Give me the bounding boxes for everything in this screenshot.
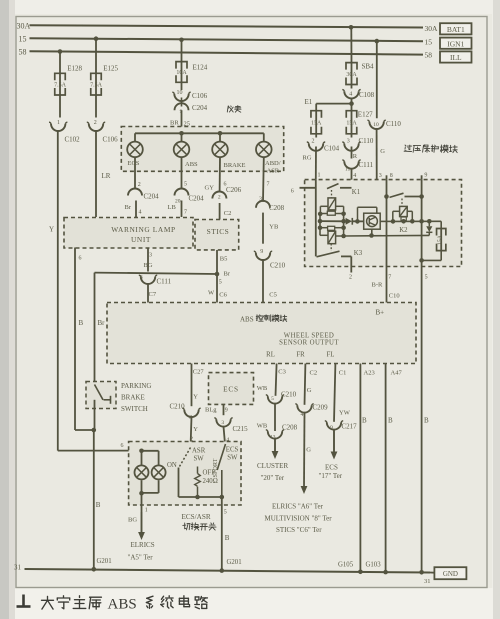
wire K1 coil leads [320, 205, 328, 207]
instrument cluster dashed box [121, 127, 283, 172]
caption title Daewoo Chairman ABS system circuit [42, 596, 54, 609]
wire ABS pin A47 to ground [385, 364, 387, 573]
switch ASR SW blade dashed [180, 448, 191, 467]
module pin9/pin5 vertical wire [421, 180, 423, 573]
connector C208 pin 3 [256, 201, 270, 208]
svg-text:WHEEL SPEED: WHEEL SPEED [284, 333, 334, 340]
svg-text:B: B [79, 319, 84, 327]
wire RG to module pin 1 [315, 147, 317, 180]
wire ECS box pin 9 down [223, 404, 225, 415]
wire into ABS module C7 [147, 284, 149, 303]
svg-text:C204: C204 [144, 193, 160, 201]
wire LR to warning lamp unit [95, 131, 97, 217]
svg-text:K1: K1 [352, 189, 360, 196]
svg-text:C2: C2 [310, 369, 318, 376]
wire transistor emitter down [371, 229, 373, 235]
STICS dashed box [195, 220, 239, 250]
svg-text:C102: C102 [65, 136, 81, 144]
svg-text:R: R [353, 153, 358, 160]
BAT1 box [440, 23, 472, 34]
svg-text:15A: 15A [346, 120, 357, 126]
svg-text:MULTIVISION "8" Ter: MULTIVISION "8" Ter [265, 514, 333, 522]
node dot feed at x=220 [218, 131, 223, 136]
connector C111 pin 11 [344, 162, 358, 169]
wire fuse E125 to connector C106 [95, 95, 97, 118]
node dot K2 switch left [384, 194, 389, 199]
svg-text:ABD/: ABD/ [265, 160, 281, 167]
svg-text:ABS: ABS [108, 597, 137, 613]
transistor Q1 box [364, 213, 381, 229]
node dot lamp feed [139, 449, 144, 454]
ground G103 [383, 570, 388, 575]
wire WB to connector C208 [274, 404, 276, 431]
wire R to connector C111 [351, 147, 353, 159]
wire Y to ASR switch [191, 417, 192, 448]
svg-text:C1: C1 [339, 369, 347, 376]
wire fuse E124 to connector C106/C204 [181, 82, 183, 90]
svg-text:G103: G103 [366, 561, 382, 568]
wire ladder rails [319, 214, 321, 236]
svg-text:C106: C106 [192, 92, 208, 100]
connector C210 pin 5 [268, 396, 282, 403]
wire lamps to ELRICS A5 arrow [141, 493, 143, 512]
svg-text:C210: C210 [270, 262, 286, 270]
wire lamp ECS to connector C204 [134, 157, 136, 189]
svg-text:E128: E128 [67, 65, 82, 73]
svg-text:SW: SW [194, 455, 205, 462]
svg-text:E1: E1 [305, 98, 313, 106]
svg-text:C111: C111 [359, 161, 374, 169]
wire ABS pin C3 down [276, 364, 277, 396]
svg-text:C7: C7 [149, 291, 157, 298]
svg-text:B5: B5 [220, 255, 228, 262]
wire to module pin 4 [351, 169, 353, 188]
svg-text:A47: A47 [391, 369, 403, 376]
wire diode to transistor base [352, 220, 363, 222]
svg-text:Br: Br [224, 270, 231, 277]
ILL box [440, 51, 472, 62]
svg-text:58: 58 [19, 47, 27, 56]
node dot feed at x=181.5 [179, 131, 184, 136]
svg-text:5: 5 [219, 279, 222, 285]
svg-text:"A5" Ter: "A5" Ter [128, 554, 154, 562]
svg-text:7: 7 [267, 181, 270, 187]
node junction on bus 15 at x=96 [94, 36, 99, 41]
wire ON contact down [178, 468, 180, 498]
wire lamp BRAKE to connector C206 pin 6 [219, 157, 221, 192]
svg-text:4: 4 [349, 91, 352, 97]
node junction on bus 15 at x=181 [179, 38, 184, 43]
svg-text:C215: C215 [233, 425, 249, 433]
wire ABS pin A23 to ground [359, 364, 361, 572]
warning lamp unit dashed box [64, 218, 193, 249]
svg-text:6: 6 [79, 256, 82, 262]
bus 30A (BAT1) wire [30, 25, 424, 27]
svg-text:ABS: ABS [240, 315, 254, 323]
ground G105 [358, 570, 363, 575]
svg-text:30A: 30A [425, 24, 439, 33]
svg-text:4: 4 [353, 173, 356, 179]
svg-text:6: 6 [291, 189, 294, 195]
svg-text:5: 5 [271, 396, 274, 402]
svg-text:C208: C208 [282, 424, 298, 432]
svg-text:30A: 30A [17, 22, 31, 31]
svg-text:E124: E124 [193, 63, 208, 71]
wire bus58 to fuse E128 [59, 52, 61, 74]
wire C108 to node [351, 98, 353, 103]
wire bus15 to fuse E124 [181, 40, 183, 62]
svg-text:PARKING: PARKING [121, 382, 151, 390]
connector C209 pin 4 [297, 405, 311, 412]
svg-text:FL: FL [327, 351, 335, 358]
fuse E128 7.5A [55, 73, 66, 80]
wire transistor collector right [380, 220, 393, 222]
svg-text:7.5A: 7.5A [90, 82, 103, 88]
node junction on bus 15 at x=377 [375, 39, 380, 44]
svg-text:RG: RG [303, 154, 312, 161]
svg-text:8: 8 [390, 173, 393, 179]
wire pin6 horizontal to junction [75, 429, 94, 431]
svg-text:IGN1: IGN1 [447, 39, 464, 48]
wire fuse E128 to connector C102 [59, 95, 61, 118]
svg-text:C3: C3 [278, 368, 286, 375]
svg-text:15: 15 [19, 35, 27, 44]
svg-text:C206: C206 [226, 186, 242, 194]
svg-text:G: G [380, 148, 385, 155]
wire BR 25 into instrument cluster [181, 110, 183, 126]
svg-text:WB: WB [257, 422, 268, 429]
wire LB to warning lamp unit pin 7 [181, 201, 183, 218]
relay K3 switch [317, 251, 340, 257]
relay K1 switch [315, 180, 317, 257]
arrow to cluster terminal [274, 439, 276, 452]
svg-text:BR: BR [170, 120, 179, 127]
wire lamp bottoms join [141, 480, 143, 493]
svg-text:ABS: ABS [185, 161, 198, 168]
diode D1 [346, 218, 352, 225]
svg-text:SW: SW [227, 454, 238, 461]
svg-text:9: 9 [260, 249, 263, 255]
node junction on bus 58 at x=60 [58, 49, 63, 54]
svg-text:WARNING LAMP: WARNING LAMP [111, 225, 175, 234]
wire lamp ABD/ASR to connector C208 [262, 157, 265, 202]
node dot resistor bottom [195, 495, 200, 500]
wire lamp ABS to connector C204 pin 5 [181, 157, 183, 189]
svg-text:ASR: ASR [192, 447, 206, 454]
wire E127 to connector C110 [351, 134, 353, 138]
svg-text:C111: C111 [157, 278, 172, 286]
wire Br to warning lamp unit pin 4 [135, 201, 137, 218]
svg-text:31: 31 [14, 564, 22, 572]
transistor Q1 [367, 216, 378, 227]
node dots K2 rail [401, 219, 406, 224]
wire pin5 to ground G201 [221, 497, 223, 571]
svg-text:5: 5 [425, 275, 428, 281]
svg-text:GND: GND [443, 570, 458, 578]
wire W into ABS module C6 [216, 274, 218, 303]
svg-text:10A: 10A [176, 70, 187, 76]
relay K1 linkage dashed [331, 190, 333, 198]
svg-text:ELRICS "A6" Ter: ELRICS "A6" Ter [272, 502, 324, 510]
svg-text:G: G [306, 446, 311, 453]
svg-text:B-R: B-R [372, 281, 384, 288]
svg-text:3: 3 [149, 253, 152, 259]
svg-text:15A: 15A [311, 120, 322, 126]
wire G to module pin 3 [376, 129, 378, 207]
svg-text:C110: C110 [359, 137, 374, 145]
overvoltage protection module dashed box [305, 180, 462, 267]
ground node module pin5 [419, 570, 424, 575]
instrument cluster label (Chinese: instrument) [227, 106, 233, 112]
fuse SB4 30A [346, 63, 357, 70]
svg-text:C2: C2 [224, 210, 232, 217]
indicator lamp L1 [135, 465, 149, 479]
fuse F1 15A in module [440, 221, 442, 228]
node dot lamps out [139, 491, 144, 496]
svg-text:ILL: ILL [450, 53, 462, 62]
svg-text:ECS/ASR: ECS/ASR [182, 513, 211, 521]
svg-text:B+: B+ [376, 308, 385, 316]
wire Br horizontal to left [95, 273, 218, 274]
module pin 8 stub [386, 175, 388, 179]
svg-text:BLg: BLg [205, 407, 217, 414]
wire K2 coil leads [393, 210, 400, 212]
svg-text:W: W [208, 289, 215, 296]
overvoltage protection module label (Chinese) [404, 145, 412, 152]
svg-text:C104: C104 [324, 144, 340, 152]
module pin 9 stub [421, 175, 423, 179]
svg-text:STICS "C6" Ter: STICS "C6" Ter [276, 526, 322, 534]
parking brake switch blade [95, 385, 104, 400]
wire K2 rail [393, 220, 441, 222]
svg-text:C204: C204 [192, 104, 208, 112]
module pin8/pin7 vertical wire [386, 180, 388, 303]
svg-text:BRAKE: BRAKE [121, 394, 145, 402]
node junction parking/warning wires [92, 428, 97, 433]
node dot switch out [220, 495, 225, 500]
connector C204 (ECS lamp) [128, 189, 142, 196]
svg-text:BAT1: BAT1 [447, 25, 465, 34]
svg-text:E125: E125 [103, 65, 118, 73]
svg-text:E127: E127 [358, 111, 373, 119]
node dots K1 rail [318, 212, 323, 217]
node dots rails mid [318, 219, 323, 224]
svg-text:4: 4 [301, 412, 304, 418]
wire bus15 down to connector C110 pin 10 [376, 41, 378, 118]
svg-text:G105: G105 [338, 561, 354, 568]
svg-text:ECS: ECS [226, 446, 239, 453]
svg-text:15: 15 [425, 37, 433, 46]
wire K3 coil leads [320, 234, 328, 236]
switch ECS SW blade [217, 444, 225, 470]
wire G down to ELRICS arrow [303, 413, 306, 487]
wire ABS pin C27 down [191, 364, 193, 407]
svg-text:2: 2 [218, 194, 221, 200]
svg-text:2: 2 [138, 182, 141, 188]
relay K2 coil [400, 206, 408, 216]
connector C110 pin 10 [369, 122, 383, 129]
wire down to fuse E1 [315, 104, 317, 111]
relay K3 coil [328, 231, 336, 244]
wire cluster feed horizontal [135, 132, 264, 134]
svg-text:C108: C108 [359, 91, 375, 99]
wire SB4 to connector C108 [351, 85, 353, 89]
svg-text:9: 9 [424, 172, 427, 178]
relay K2 switch [390, 193, 404, 197]
wire fuse F1 bottom to pin5 wire [440, 251, 442, 261]
wire switch to junction [94, 400, 96, 430]
svg-text:240Ω: 240Ω [203, 478, 218, 485]
svg-text:C6: C6 [219, 292, 227, 299]
svg-text:10: 10 [373, 122, 379, 128]
svg-text:C5: C5 [269, 292, 277, 299]
svg-text:C210: C210 [281, 390, 297, 398]
svg-text:CLUSTER: CLUSTER [257, 462, 288, 470]
svg-text:11: 11 [345, 166, 351, 172]
svg-text:ASR: ASR [267, 167, 280, 174]
relay K3 upper small box [328, 226, 335, 230]
wire ECS SW contact down [221, 470, 223, 497]
svg-text:SENSOR OUTPUT: SENSOR OUTPUT [279, 340, 339, 347]
svg-text:B: B [388, 416, 393, 424]
connector C108 pin 4 [344, 91, 358, 98]
connector C217 pin 9 [327, 422, 341, 429]
svg-text:C210: C210 [170, 403, 186, 411]
module pin 6 stub [300, 187, 316, 189]
svg-text:BRAKE: BRAKE [224, 162, 246, 169]
svg-text:31: 31 [424, 578, 431, 585]
svg-text:1: 1 [57, 120, 60, 126]
bus 15 (IGN1) wire [30, 38, 424, 41]
svg-text:9: 9 [330, 425, 333, 431]
svg-text:C10: C10 [389, 292, 400, 299]
wire feed to lamp ABS [181, 133, 183, 142]
svg-text:10: 10 [177, 90, 183, 96]
svg-text:YB: YB [269, 224, 279, 231]
fuse E125 7.5A [91, 73, 102, 80]
wire transistor top branch [357, 207, 359, 221]
svg-text:58: 58 [425, 51, 433, 60]
wire lamp feeds [142, 450, 159, 452]
wire K3 to module pin 2 [350, 256, 352, 266]
svg-text:7: 7 [184, 209, 187, 215]
GND box [430, 572, 434, 574]
svg-text:SB4: SB4 [362, 62, 375, 70]
wire Y - C102 down left side [57, 131, 59, 451]
wire Br down to parking brake switch [94, 273, 96, 382]
svg-text:7: 7 [388, 275, 391, 281]
svg-text:1: 1 [318, 173, 321, 179]
svg-text:9: 9 [225, 408, 228, 414]
svg-text:3: 3 [379, 173, 382, 179]
svg-text:Y: Y [193, 426, 198, 433]
svg-text:G: G [307, 387, 312, 394]
svg-text:C110: C110 [386, 120, 401, 128]
svg-text:5: 5 [224, 510, 227, 516]
svg-text:BG: BG [144, 262, 153, 269]
wire to ECS switch pin 4 [224, 427, 225, 442]
wire main line to diode D1 [320, 220, 345, 222]
indicator lamp L2 [152, 465, 166, 479]
wire bottom bus of module [344, 234, 430, 237]
svg-text:2: 2 [94, 120, 97, 126]
connector C208 pin 13 [268, 431, 282, 438]
wire YB down [262, 213, 264, 244]
fuse E127 15A [351, 104, 353, 111]
connector C206 pin 2 [212, 192, 226, 199]
node dot K2 switch right [419, 194, 424, 199]
svg-text:1: 1 [145, 508, 148, 514]
svg-text:15A: 15A [438, 234, 444, 245]
svg-text:ELRICS: ELRICS [131, 541, 155, 549]
svg-text:3: 3 [221, 420, 224, 426]
node junction on bus 30A at x=351 [349, 25, 354, 30]
node dot base branch [355, 219, 360, 224]
svg-text:ECS: ECS [325, 463, 338, 471]
svg-text:Y: Y [49, 226, 54, 234]
svg-text:RL: RL [266, 351, 275, 358]
diode D2 [428, 221, 430, 226]
svg-text:SWITCH: SWITCH [121, 405, 148, 413]
node dot emitter [369, 233, 374, 238]
fuse E1 15A [311, 111, 322, 118]
svg-text:STICS: STICS [207, 227, 230, 236]
svg-text:B: B [362, 416, 367, 424]
svg-text:B: B [424, 416, 429, 424]
svg-text:5: 5 [184, 181, 187, 187]
wire feed to lamp ABD/ASR [263, 133, 265, 142]
wire ABS pin C1 down [334, 364, 335, 422]
svg-text:BG: BG [128, 517, 137, 524]
svg-text:2: 2 [349, 275, 352, 281]
svg-text:ON: ON [167, 462, 177, 469]
bus 58 (ILL) wire [30, 51, 424, 54]
svg-text:"17" Ter: "17" Ter [319, 472, 343, 480]
svg-text:"20" Ter: "20" Ter [261, 474, 285, 482]
relay K2 linkage dashed [401, 199, 403, 207]
wire C2 into STICS [219, 203, 221, 220]
svg-text:6: 6 [121, 443, 124, 449]
node junction fuse feed [349, 101, 354, 106]
svg-text:LB: LB [168, 204, 177, 211]
svg-text:4: 4 [139, 209, 142, 215]
svg-text:GY: GY [205, 184, 215, 191]
svg-text:2: 2 [312, 139, 315, 145]
wire feed to lamp ECS [134, 133, 136, 142]
node dot collector to K2 [391, 219, 396, 224]
svg-text:7.5A: 7.5A [54, 82, 67, 88]
lamp ECS indicator [127, 142, 143, 158]
ground G201 left [92, 567, 97, 572]
svg-text:C204: C204 [189, 195, 205, 203]
connector C204 pin 20 [175, 189, 189, 196]
wire Y horizontal into ECS/ASR switch box [58, 450, 142, 452]
node dot pin5/fuse join [419, 258, 424, 263]
node junction Br [215, 272, 220, 277]
svg-text:A23: A23 [364, 369, 375, 376]
svg-text:SPORT: SPORT [212, 458, 219, 477]
wire ABS pin C2 down [304, 364, 307, 405]
relay K1 coil [328, 198, 336, 210]
ECS/ASR switch dashed box [129, 442, 241, 506]
wire bus30A to fuse SB4 [350, 27, 352, 62]
svg-text:Br: Br [98, 319, 106, 327]
svg-text:B: B [96, 501, 101, 509]
svg-text:30A: 30A [346, 72, 357, 78]
ground G201 right [220, 568, 225, 573]
parking brake switch dashed box [86, 382, 116, 409]
wire B down to ground G201 [93, 430, 95, 569]
